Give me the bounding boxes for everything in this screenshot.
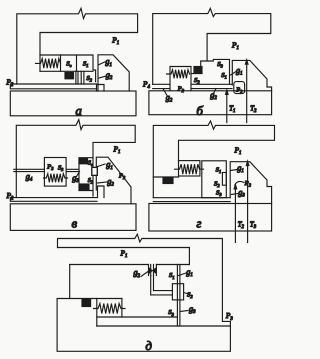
svg-text:а: а <box>75 103 82 118</box>
svg-text:г: г <box>196 216 201 231</box>
svg-text:в: в <box>71 215 77 230</box>
svg-text:д: д <box>145 338 152 353</box>
svg-text:S2: S2 <box>88 178 93 185</box>
svg-text:Sв: Sв <box>88 160 93 167</box>
svg-text:б: б <box>196 103 203 118</box>
